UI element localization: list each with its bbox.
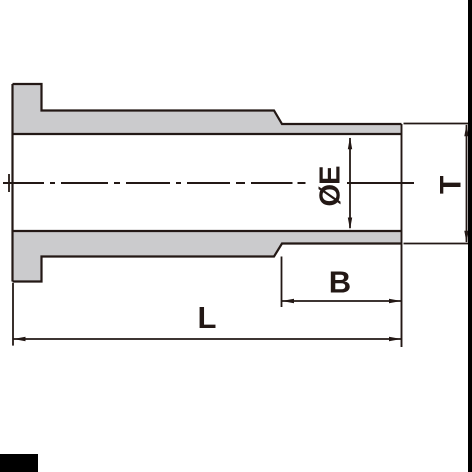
- center line dashes: [3, 182, 414, 184]
- dim T extension top: [404, 123, 471, 125]
- flange left face line: [11, 84, 13, 282]
- ferrule lower wall gray fill: [13, 231, 402, 282]
- dim OE arrow up: [348, 137, 352, 149]
- lower bore line: [13, 230, 402, 232]
- svg-text:B: B: [329, 265, 351, 300]
- dim B arrow left: [282, 299, 294, 303]
- ferrule upper wall gray fill: [13, 84, 402, 134]
- dim B extension left: [281, 257, 283, 308]
- black band right edge: [468, 0, 472, 472]
- dim OE arrow down: [348, 218, 352, 230]
- upper bore line: [13, 133, 402, 135]
- dim T line: [466, 125, 468, 242]
- dim T arrow up: [464, 124, 468, 136]
- dim L line: [13, 338, 402, 340]
- dim B arrow right: [389, 299, 401, 303]
- tube end line: [401, 124, 403, 347]
- svg-text:T: T: [434, 176, 467, 194]
- black block bottom-left corner: [0, 454, 38, 472]
- dim L arrow left: [13, 337, 25, 341]
- center line tick: [8, 174, 10, 192]
- dim T extension bottom: [404, 243, 471, 245]
- dim OE line: [349, 138, 351, 228]
- dim L extension left: [12, 283, 14, 346]
- upper outer contour: [13, 84, 402, 124]
- dim L arrow right: [389, 337, 401, 341]
- svg-text:L: L: [198, 300, 217, 335]
- svg-text:ØE: ØE: [315, 166, 347, 207]
- dim B line: [282, 300, 402, 302]
- lower outer contour: [13, 244, 402, 282]
- dim T arrow down: [464, 231, 468, 243]
